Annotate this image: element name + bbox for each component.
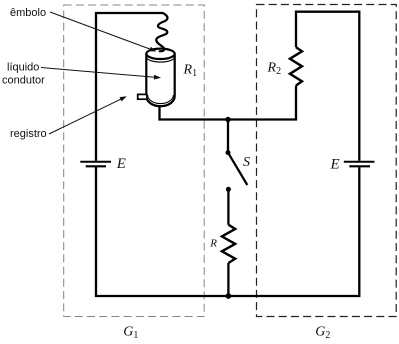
svg-text:E: E (116, 156, 126, 172)
svg-text:condutor: condutor (2, 75, 45, 87)
svg-text:êmbolo: êmbolo (10, 7, 46, 19)
svg-text:registro: registro (10, 128, 47, 140)
svg-text:E: E (330, 157, 340, 173)
svg-text:S: S (243, 155, 250, 170)
svg-text:R: R (209, 238, 217, 250)
svg-text:líquido: líquido (7, 62, 39, 74)
